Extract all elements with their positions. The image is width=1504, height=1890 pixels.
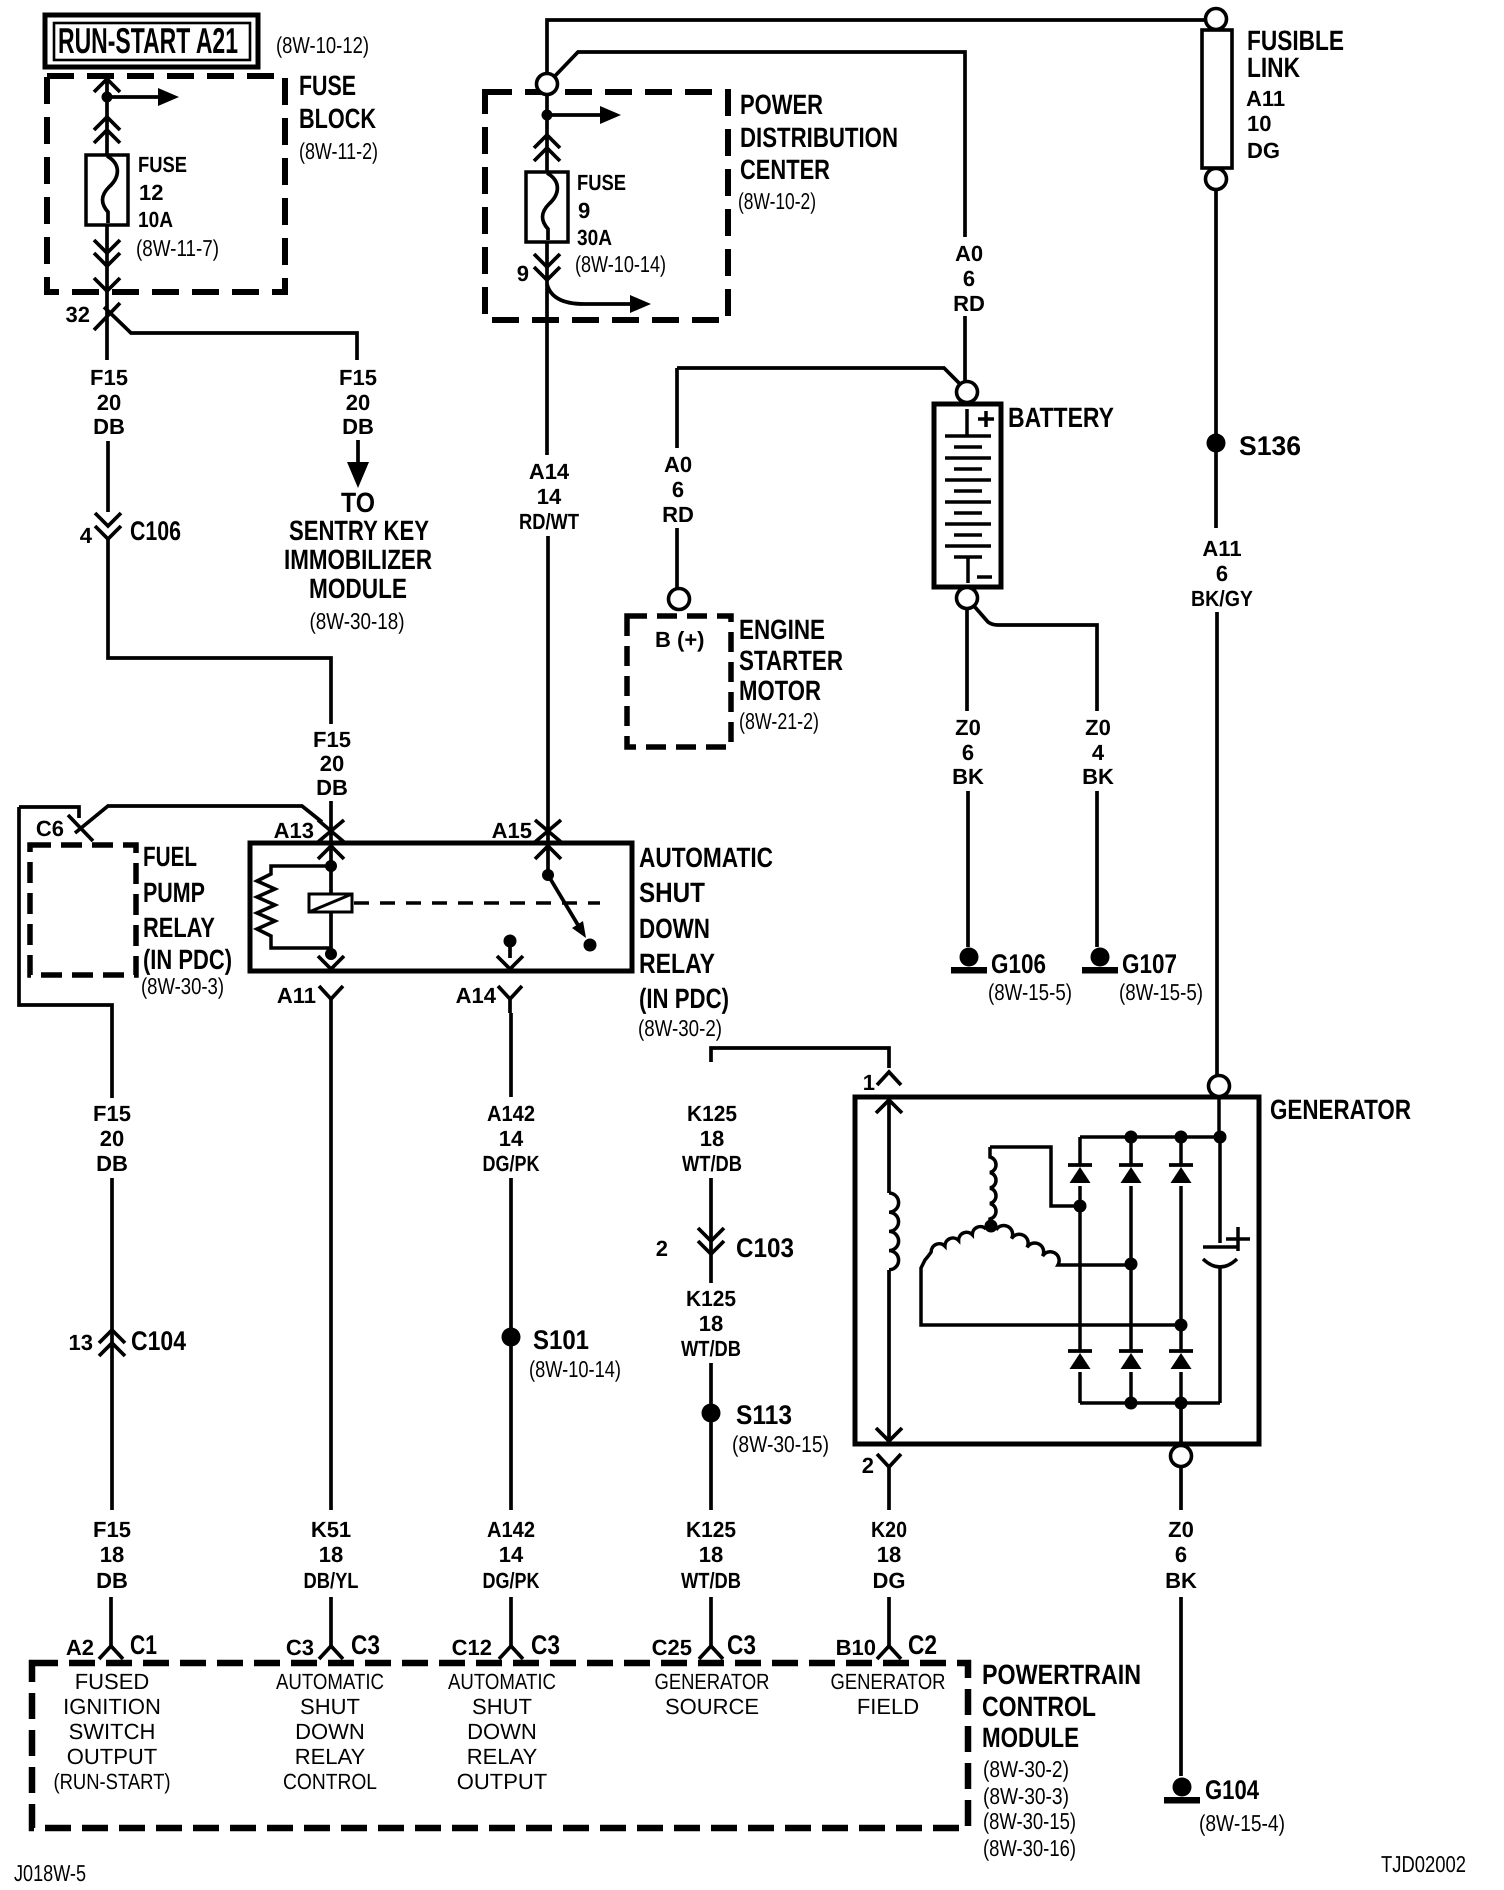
svg-text:20: 20 [346, 390, 370, 415]
svg-text:RELAY: RELAY [295, 1744, 366, 1769]
svg-text:RELAY: RELAY [639, 948, 715, 979]
node TO SENTRY KEY IMMOBILIZER MODULE [284, 487, 432, 634]
svg-text:A11: A11 [277, 983, 316, 1008]
resistor (relay) [257, 866, 331, 948]
pin B10 [877, 1646, 901, 1659]
battery B1 [934, 382, 1001, 609]
pin A2 [99, 1646, 123, 1659]
fusible link A11 [1202, 9, 1232, 190]
svg-text:A2: A2 [66, 1635, 94, 1660]
svg-text:B10: B10 [836, 1635, 876, 1660]
svg-text:(8W-30-18): (8W-30-18) [310, 608, 405, 634]
svg-text:F15: F15 [93, 1101, 131, 1126]
svg-text:CONTROL: CONTROL [283, 1769, 377, 1794]
svg-text:(8W-30-16): (8W-30-16) [983, 1835, 1076, 1861]
svg-text:DB: DB [96, 1568, 128, 1593]
fuse block dashed box [47, 76, 285, 292]
wire C6 to A13 [19, 806, 322, 833]
svg-text:9: 9 [578, 198, 590, 223]
svg-text:WT/DB: WT/DB [681, 1336, 741, 1361]
svg-text:A14: A14 [456, 983, 497, 1008]
label A142 14 DG/PK [483, 1101, 540, 1176]
relay coil box [309, 894, 352, 912]
svg-text:(8W-10-12): (8W-10-12) [276, 32, 369, 58]
svg-text:RUN-START A21: RUN-START A21 [58, 20, 238, 61]
fuse F9 [526, 172, 568, 242]
svg-text:G107: G107 [1122, 949, 1177, 979]
svg-text:G106: G106 [991, 949, 1046, 979]
wire S136 to generator [1216, 452, 1217, 1075]
svg-text:(8W-30-2): (8W-30-2) [638, 1015, 722, 1041]
svg-text:(8W-11-7): (8W-11-7) [136, 235, 219, 261]
connector chevrons [534, 135, 560, 161]
wire battery negative to G107 [974, 606, 1097, 947]
svg-text:IGNITION: IGNITION [63, 1694, 161, 1719]
node GENERATOR FIELD [831, 1669, 946, 1719]
svg-text:FIELD: FIELD [857, 1694, 919, 1719]
junction dots bottom bus [1125, 1397, 1138, 1410]
wire K125 net to generator field 1 [711, 1048, 889, 1068]
svg-text:C3: C3 [286, 1635, 314, 1660]
wire rectifier bottom bus [1080, 1401, 1220, 1405]
pin C12 [499, 1646, 523, 1659]
wire field winding feed [887, 1097, 891, 1193]
diode D2 [1129, 1137, 1133, 1264]
svg-text:MOTOR: MOTOR [739, 675, 821, 706]
svg-text:A13: A13 [274, 818, 314, 843]
svg-text:6: 6 [1175, 1542, 1187, 1567]
node AUTOMATIC SHUT DOWN RELAY label [638, 842, 773, 1041]
svg-text:POWERTRAIN: POWERTRAIN [982, 1659, 1141, 1690]
svg-text:18: 18 [319, 1542, 343, 1567]
label FUSE 9 30A (8W-10-14) [575, 170, 666, 277]
splice S136 [1207, 434, 1226, 453]
svg-text:K20: K20 [871, 1517, 907, 1542]
svg-text:C3: C3 [351, 1630, 380, 1660]
svg-text:(8W-30-2): (8W-30-2) [983, 1756, 1069, 1782]
connector C104 [99, 1330, 125, 1356]
wire A14 [508, 941, 512, 958]
svg-text:K51: K51 [311, 1517, 351, 1542]
svg-text:(IN PDC): (IN PDC) [639, 983, 729, 1014]
label F15 20 DB (left) [90, 365, 128, 439]
stator winding 1 [990, 1147, 1080, 1206]
svg-text:K125: K125 [686, 1517, 736, 1542]
svg-text:(8W-10-14): (8W-10-14) [575, 251, 666, 277]
node ENGINE STARTER MOTOR label [739, 614, 843, 734]
svg-text:12: 12 [139, 180, 163, 205]
svg-text:AUTOMATIC: AUTOMATIC [276, 1669, 384, 1694]
label F15 18 DB [93, 1517, 131, 1593]
splice S113 [702, 1404, 721, 1423]
junction dot [325, 860, 337, 872]
svg-text:14: 14 [499, 1126, 524, 1151]
svg-text:DG/PK: DG/PK [483, 1151, 540, 1176]
wire PDC to battery A0 [554, 52, 965, 382]
svg-text:BK/GY: BK/GY [1191, 586, 1253, 611]
junction dot [542, 110, 553, 121]
svg-text:WT/DB: WT/DB [682, 1151, 742, 1176]
wire C106 down and over to A13 [108, 539, 331, 724]
svg-text:J018W-5: J018W-5 [14, 1860, 86, 1886]
label F15 20 DB (above A13) [313, 727, 351, 800]
wire coil [329, 866, 333, 954]
svg-text:(IN PDC): (IN PDC) [143, 944, 232, 975]
wire K20 generator field to PCM [887, 1481, 891, 1646]
field coil (rotor winding) [889, 1193, 899, 1270]
svg-text:DB: DB [93, 414, 125, 439]
svg-text:F15: F15 [313, 727, 351, 752]
svg-text:A11: A11 [1246, 86, 1285, 111]
svg-text:(8W-15-5): (8W-15-5) [988, 979, 1072, 1005]
svg-text:DG: DG [1247, 138, 1280, 163]
svg-text:DB/YL: DB/YL [304, 1568, 359, 1593]
diode D5 [1129, 1264, 1133, 1403]
diode D3 [1179, 1137, 1183, 1325]
svg-text:C3: C3 [727, 1630, 756, 1660]
node FUSE BLOCK label [299, 70, 378, 164]
svg-text:G104: G104 [1205, 1775, 1259, 1805]
connector C106 [95, 513, 121, 539]
svg-text:SENTRY KEY: SENTRY KEY [289, 515, 429, 546]
svg-text:BK: BK [952, 764, 984, 789]
svg-text:FUEL: FUEL [143, 841, 197, 872]
wire A0 branch to starter [677, 368, 960, 384]
svg-text:BATTERY: BATTERY [1008, 402, 1114, 433]
wire fuel pump to PCM A2 [19, 807, 112, 1646]
engine starter motor dashed box [627, 616, 731, 747]
svg-text:C103: C103 [736, 1233, 794, 1263]
svg-text:Z0: Z0 [1085, 715, 1111, 740]
svg-text:18: 18 [700, 1126, 724, 1151]
svg-text:FUSED: FUSED [75, 1669, 150, 1694]
svg-text:(8W-11-2): (8W-11-2) [299, 138, 378, 164]
node FUEL PUMP RELAY label [141, 841, 232, 999]
svg-text:6: 6 [963, 266, 975, 291]
svg-text:DB: DB [96, 1151, 128, 1176]
svg-text:DOWN: DOWN [639, 913, 710, 944]
pin 1 generator [877, 1072, 901, 1085]
connector X C6 [68, 815, 93, 841]
relay actuation dashed link [354, 901, 600, 905]
svg-text:18: 18 [699, 1542, 723, 1567]
connector C103 [698, 1228, 724, 1254]
svg-text:SOURCE: SOURCE [665, 1694, 759, 1719]
pin A14 [498, 986, 522, 1013]
ground G104 [1164, 1778, 1200, 1804]
svg-text:20: 20 [97, 390, 121, 415]
svg-text:A142: A142 [487, 1101, 535, 1126]
svg-text:TJD02002: TJD02002 [1381, 1851, 1466, 1877]
svg-text:C3: C3 [531, 1630, 560, 1660]
svg-text:CENTER: CENTER [740, 154, 830, 185]
svg-text:C104: C104 [131, 1326, 186, 1356]
svg-text:4: 4 [1092, 740, 1105, 765]
connector X A13 [318, 820, 344, 842]
svg-text:C1: C1 [130, 1630, 157, 1660]
ASD relay box [250, 843, 632, 971]
junction dot A14 [504, 935, 517, 948]
svg-text:Z0: Z0 [955, 715, 981, 740]
node AUTOMATIC SHUT DOWN RELAY CONTROL [276, 1669, 384, 1794]
svg-text:4: 4 [80, 523, 93, 548]
powertrain control module dashed box [32, 1663, 968, 1828]
svg-text:SHUT: SHUT [300, 1694, 360, 1719]
label K125 18 WT/DB (lower) [681, 1517, 741, 1593]
svg-text:18: 18 [877, 1542, 901, 1567]
wire branch to sentry key [104, 307, 357, 360]
terminal circle generator output [1171, 1446, 1192, 1467]
svg-text:OUTPUT: OUTPUT [457, 1769, 547, 1794]
svg-text:GENERATOR: GENERATOR [1270, 1094, 1411, 1125]
svg-text:C106: C106 [130, 516, 181, 546]
label A0 6 RD (starter) [662, 452, 694, 527]
svg-text:(8W-30-3): (8W-30-3) [141, 973, 224, 999]
ground G106 [951, 948, 987, 974]
wire Z0 to G104 [1179, 1467, 1183, 1776]
svg-text:(8W-30-15): (8W-30-15) [732, 1431, 829, 1457]
svg-text:PUMP: PUMP [143, 877, 205, 908]
wire generator output [1179, 1403, 1183, 1444]
label A0 6 RD (battery feed) [953, 241, 985, 316]
svg-text:RELAY: RELAY [143, 912, 215, 943]
svg-text:6: 6 [1216, 561, 1228, 586]
svg-text:6: 6 [672, 477, 684, 502]
connector X A15 [535, 820, 561, 842]
wire top bus to fusible link [547, 20, 1204, 74]
splice S101 [502, 1328, 521, 1347]
svg-text:SHUT: SHUT [472, 1694, 532, 1719]
svg-text:10A: 10A [138, 207, 173, 232]
connector 9 [534, 254, 560, 280]
arrow to sentry key module [356, 440, 360, 462]
svg-text:AUTOMATIC: AUTOMATIC [448, 1669, 556, 1694]
svg-text:(8W-30-15): (8W-30-15) [983, 1808, 1076, 1834]
svg-text:RD: RD [662, 502, 694, 527]
label A14 14 RD/WT [519, 459, 579, 534]
svg-text:S136: S136 [1239, 431, 1301, 461]
wire rectifier top bus [1080, 1097, 1220, 1137]
pin A11 [319, 986, 343, 1013]
svg-text:CONTROL: CONTROL [982, 1691, 1096, 1722]
junction dot phase 3 [1175, 1319, 1188, 1332]
svg-text:2: 2 [656, 1236, 668, 1261]
svg-text:AUTOMATIC: AUTOMATIC [639, 842, 773, 873]
diode D1 [1078, 1137, 1082, 1206]
wire A142 ASD output [509, 1013, 513, 1646]
label Z0 4 BK [1082, 715, 1114, 789]
node POWER DISTRIBUTION CENTER label [738, 89, 898, 214]
svg-text:TO: TO [341, 487, 375, 518]
svg-text:9: 9 [517, 261, 529, 286]
pin C3 [319, 1646, 343, 1659]
svg-text:A142: A142 [487, 1517, 535, 1542]
svg-text:SHUT: SHUT [639, 877, 705, 908]
label A142 14 DG/PK (lower) [483, 1517, 540, 1593]
stator star point [985, 1220, 998, 1233]
junction dot phase 1 [1074, 1200, 1087, 1213]
svg-text:BLOCK: BLOCK [299, 103, 376, 134]
svg-text:6: 6 [962, 740, 974, 765]
svg-text:2: 2 [862, 1453, 874, 1478]
svg-text:SWITCH: SWITCH [69, 1719, 156, 1744]
wire down from pin 32 [105, 296, 109, 360]
svg-text:DISTRIBUTION: DISTRIBUTION [740, 122, 898, 153]
wire A15 switch feed [546, 843, 550, 875]
connector chevrons [94, 117, 120, 143]
svg-text:A0: A0 [955, 241, 983, 266]
junction dot switch throw [584, 939, 597, 952]
label Z0 6 BK [952, 715, 984, 789]
label K125 18 WT/DB (mid) [681, 1286, 741, 1361]
wire K125 down [709, 1178, 713, 1646]
fuel pump relay dashed box [30, 845, 136, 975]
svg-text:DG: DG [873, 1568, 906, 1593]
svg-text:OUTPUT: OUTPUT [67, 1744, 157, 1769]
terminal circle starter B+ [669, 589, 690, 610]
svg-text:A11: A11 [1202, 536, 1241, 561]
junction dots top bus [1125, 1131, 1138, 1144]
svg-text:Z0: Z0 [1168, 1517, 1194, 1542]
wire A14 RD/WT down to ASD A15 [547, 320, 548, 843]
svg-text:B (+): B (+) [655, 627, 705, 652]
label K20 18 DG [871, 1517, 907, 1593]
connector chevrons below fuse [94, 240, 120, 266]
wire A13 coil feed [329, 843, 333, 866]
terminal circle PDC feed [537, 74, 558, 95]
diode D4 [1078, 1206, 1082, 1403]
capacitor C [1203, 1137, 1237, 1403]
svg-text:C12: C12 [452, 1635, 492, 1660]
svg-text:A14: A14 [529, 459, 570, 484]
generator output terminal [1209, 1076, 1230, 1097]
svg-text:BK: BK [1165, 1568, 1197, 1593]
svg-text:RD/WT: RD/WT [519, 509, 579, 534]
power distribution center dashed box [485, 92, 728, 320]
fuse F12 [86, 155, 128, 225]
junction dot [542, 869, 554, 881]
label A11 6 BK/GY [1191, 536, 1253, 611]
svg-text:A15: A15 [492, 818, 532, 843]
svg-text:S101: S101 [533, 1325, 589, 1355]
label FUSE 12 10A (8W-11-7) [136, 152, 219, 261]
svg-text:MODULE: MODULE [309, 573, 407, 604]
svg-text:C2: C2 [908, 1630, 937, 1660]
svg-text:K125: K125 [687, 1101, 737, 1126]
svg-text:DOWN: DOWN [295, 1719, 365, 1744]
svg-text:14: 14 [499, 1542, 524, 1567]
wire fuse block feed [105, 78, 109, 296]
svg-text:GENERATOR: GENERATOR [831, 1669, 946, 1694]
junction dot phase 2 [1125, 1258, 1138, 1271]
svg-text:(8W-21-2): (8W-21-2) [739, 708, 819, 734]
node FUSIBLE LINK label [1246, 25, 1344, 163]
svg-text:14: 14 [537, 484, 562, 509]
node FUSED IGNITION SWITCH OUTPUT (RUN-START) [54, 1669, 171, 1794]
generator box [855, 1097, 1259, 1444]
svg-text:RD: RD [953, 291, 985, 316]
wire field winding return [887, 1270, 891, 1444]
svg-text:(8W-15-4): (8W-15-4) [1199, 1810, 1285, 1836]
svg-text:WT/DB: WT/DB [681, 1568, 741, 1593]
wire F15 to C106 [106, 441, 110, 512]
pin 2 generator [877, 1454, 901, 1481]
svg-text:RELAY: RELAY [467, 1744, 538, 1769]
svg-text:FUSE: FUSE [577, 170, 626, 195]
svg-text:DB: DB [342, 414, 374, 439]
node GENERATOR SOURCE [655, 1669, 770, 1719]
svg-text:MODULE: MODULE [982, 1722, 1079, 1753]
svg-text:20: 20 [320, 751, 344, 776]
svg-text:13: 13 [69, 1330, 93, 1355]
relay switch blade [548, 875, 578, 925]
svg-text:(RUN-START): (RUN-START) [54, 1769, 171, 1794]
junction dot [102, 92, 113, 103]
svg-text:(8W-15-5): (8W-15-5) [1119, 979, 1203, 1005]
label Z0 6 BK (generator) [1165, 1517, 1197, 1593]
svg-text:(8W-30-3): (8W-30-3) [983, 1783, 1069, 1809]
svg-text:30A: 30A [577, 225, 612, 250]
svg-text:F15: F15 [90, 365, 128, 390]
label K51 18 DB/YL [304, 1517, 359, 1593]
svg-text:10: 10 [1247, 111, 1271, 136]
svg-text:DB: DB [316, 775, 348, 800]
node POWERTRAIN CONTROL MODULE label [982, 1659, 1141, 1861]
node RUN-START A21 title box [45, 15, 258, 67]
svg-text:BK: BK [1082, 764, 1114, 789]
svg-text:STARTER: STARTER [739, 645, 843, 676]
arrow to other circuits [552, 113, 600, 117]
pin C25 [699, 1646, 723, 1659]
wire fusible link to S136 [1214, 190, 1218, 434]
wire battery negative to G106 [967, 609, 968, 947]
svg-text:LINK: LINK [1247, 52, 1300, 83]
stator winding 3 [996, 1225, 1131, 1265]
stator winding 2 [921, 1227, 1181, 1325]
svg-text:A0: A0 [664, 452, 692, 477]
svg-text:GENERATOR: GENERATOR [655, 1669, 770, 1694]
node AUTOMATIC SHUT DOWN RELAY OUTPUT [448, 1669, 556, 1794]
svg-text:F15: F15 [339, 365, 377, 390]
svg-text:32: 32 [66, 302, 90, 327]
svg-text:DG/PK: DG/PK [483, 1568, 540, 1593]
svg-text:POWER: POWER [740, 89, 823, 120]
svg-text:FUSE: FUSE [138, 152, 187, 177]
svg-text:S113: S113 [736, 1400, 792, 1430]
wire K51 ASD control to PCM [329, 1013, 333, 1646]
svg-text:ENGINE: ENGINE [739, 614, 825, 645]
arrow to other circuits curved [547, 284, 630, 304]
svg-text:20: 20 [100, 1126, 124, 1151]
svg-text:FUSE: FUSE [299, 70, 356, 101]
svg-text:C6: C6 [36, 816, 64, 841]
junction dot [325, 948, 337, 960]
svg-text:1: 1 [863, 1070, 875, 1095]
wire to A13 [329, 801, 333, 843]
svg-text:DOWN: DOWN [467, 1719, 537, 1744]
wire PDC internal [545, 95, 549, 320]
svg-text:IMMOBILIZER: IMMOBILIZER [284, 544, 432, 575]
label F15 20 DB (right) [339, 365, 377, 439]
svg-text:K125: K125 [686, 1286, 736, 1311]
svg-text:F15: F15 [93, 1517, 131, 1542]
svg-text:(8W-10-2): (8W-10-2) [738, 188, 816, 214]
svg-text:(8W-10-14): (8W-10-14) [529, 1356, 621, 1382]
svg-text:C25: C25 [652, 1635, 692, 1660]
diode D6 [1179, 1325, 1183, 1403]
connector X at pin 32 [94, 303, 120, 330]
label K125 18 WT/DB [682, 1101, 742, 1176]
